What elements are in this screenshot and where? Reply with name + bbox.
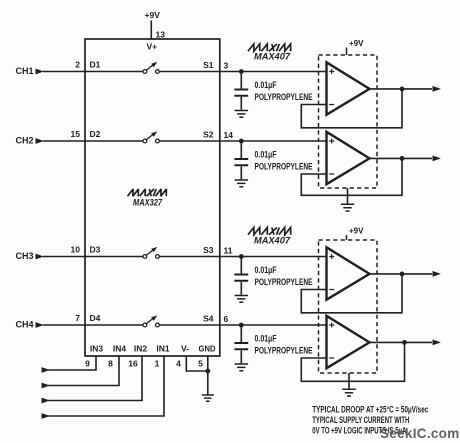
svg-text:S3: S3 bbox=[203, 245, 214, 255]
ground below C1 bbox=[235, 111, 249, 118]
svg-text:4: 4 bbox=[176, 359, 181, 369]
capacitor C4 0.01uF bbox=[234, 325, 248, 363]
svg-text:14: 14 bbox=[224, 130, 234, 140]
svg-text:POLYPROPYLENE: POLYPROPYLENE bbox=[255, 345, 313, 355]
capacitor C3 0.01uF bbox=[234, 257, 248, 295]
wire CH2 input to pin 15 bbox=[43, 140, 85, 142]
svg-text:0.01µF: 0.01µF bbox=[255, 334, 277, 344]
ground below MAX407 #1 bbox=[341, 204, 354, 211]
output arrow row 4 bbox=[433, 340, 442, 346]
wire feedback loop U2 output to inverting input bbox=[301, 89, 402, 128]
analog switch SW3 (D3-S3) bbox=[143, 247, 159, 259]
wire D3 to switch pole bbox=[85, 256, 143, 258]
svg-text:D1: D1 bbox=[90, 60, 101, 70]
svg-text:SeekIC.com: SeekIC.com bbox=[380, 426, 460, 441]
analog switch SW1 (D1-S1) bbox=[143, 62, 159, 74]
input arrow CH2 bbox=[36, 138, 45, 144]
wire switch throw to S2 bbox=[159, 140, 220, 142]
input arrow IN3 bbox=[42, 367, 51, 373]
svg-text:6: 6 bbox=[224, 314, 229, 324]
wire S3 to op-amp U4 noninverting input bbox=[220, 256, 327, 258]
wire IN3 logic input bbox=[49, 356, 97, 370]
svg-text:+9V: +9V bbox=[349, 227, 364, 236]
svg-text:MAX407: MAX407 bbox=[254, 52, 291, 62]
wire CH4 input to pin 7 bbox=[43, 324, 85, 326]
input arrow IN1 bbox=[42, 413, 51, 419]
wire S1 to op-amp U2 noninverting input bbox=[220, 71, 327, 73]
svg-text:CH4: CH4 bbox=[16, 320, 34, 330]
ground below C4 bbox=[235, 364, 249, 371]
op-amp U2 + input mark bbox=[329, 69, 334, 74]
svg-text:16: 16 bbox=[128, 359, 138, 369]
svg-text:CH2: CH2 bbox=[16, 136, 34, 146]
svg-text:V-: V- bbox=[181, 344, 189, 354]
svg-text:+9V: +9V bbox=[349, 39, 364, 48]
wire switch throw to S4 bbox=[159, 324, 220, 326]
wire feedback loop U3 output to inverting input bbox=[301, 158, 402, 195]
op-amp U2 (1/4 MAX407) bbox=[327, 62, 370, 114]
wire ground stub (MAX407 #1) bbox=[347, 188, 349, 204]
svg-text:13: 13 bbox=[156, 30, 166, 40]
wire op-amp U2 output bbox=[370, 88, 433, 90]
wire feedback loop U5 output to inverting input bbox=[301, 342, 404, 381]
junction node at C4 bbox=[239, 323, 244, 328]
svg-text:D2: D2 bbox=[90, 129, 101, 139]
junction node at C1 bbox=[239, 69, 244, 74]
op-amp U3 (1/4 MAX407) bbox=[327, 132, 370, 184]
input arrow IN4 bbox=[42, 383, 51, 389]
analog switch SW4 (D4-S4) bbox=[143, 315, 159, 327]
svg-text:1: 1 bbox=[155, 359, 160, 369]
svg-text:11: 11 bbox=[224, 245, 233, 255]
wire op-amp U4 output bbox=[370, 273, 433, 275]
input arrow CH4 bbox=[36, 322, 45, 328]
capacitor C2 0.01uF bbox=[234, 141, 248, 179]
svg-text:2: 2 bbox=[75, 60, 80, 70]
svg-text:IN1: IN1 bbox=[156, 344, 170, 354]
svg-text:POLYPROPYLENE: POLYPROPYLENE bbox=[255, 161, 313, 171]
svg-text:+9V: +9V bbox=[145, 10, 161, 20]
input arrow CH3 bbox=[36, 254, 45, 260]
svg-text:CH3: CH3 bbox=[16, 251, 34, 261]
wire +9V stub (MAX407 #1) bbox=[346, 48, 348, 56]
op-amp U4 (1/4 MAX407) bbox=[327, 247, 370, 299]
svg-text:D3: D3 bbox=[90, 245, 101, 255]
wire CH3 input to pin 10 bbox=[43, 256, 85, 258]
svg-text:S1: S1 bbox=[203, 60, 214, 70]
svg-text:0.01µF: 0.01µF bbox=[255, 265, 277, 275]
svg-text:MAX407: MAX407 bbox=[254, 236, 291, 246]
svg-text:IN2: IN2 bbox=[134, 344, 148, 354]
wire op-amp U5 output bbox=[370, 341, 433, 343]
op-amp U3 - input mark bbox=[329, 173, 334, 175]
svg-text:7: 7 bbox=[75, 313, 80, 323]
op-amp U5 (1/4 MAX407) bbox=[327, 316, 370, 368]
wire S4 to op-amp U5 noninverting input bbox=[220, 324, 327, 326]
svg-text:V+: V+ bbox=[147, 42, 158, 52]
svg-text:IN4: IN4 bbox=[113, 344, 127, 354]
output arrow row 3 bbox=[433, 271, 442, 277]
ground symbol (V-/GND) bbox=[202, 395, 214, 401]
junction node V-/GND bbox=[205, 369, 210, 374]
wire switch throw to S1 bbox=[159, 71, 220, 73]
MAXIM logo (MAX407 #2) bbox=[248, 228, 291, 235]
svg-text:IN3: IN3 bbox=[90, 344, 104, 354]
wire V- to GND net bbox=[186, 356, 208, 371]
svg-text:9: 9 bbox=[85, 359, 90, 369]
svg-text:0.01µF: 0.01µF bbox=[255, 80, 277, 90]
wire +9V to V+ pin 13 bbox=[150, 21, 152, 40]
svg-text:D4: D4 bbox=[90, 313, 101, 323]
input arrow CH1 bbox=[36, 69, 45, 75]
ground below MAX407 #2 bbox=[342, 389, 356, 396]
input arrow IN2 bbox=[42, 398, 51, 404]
op-amp U3 + input mark bbox=[329, 139, 334, 144]
op-amp U5 - input mark bbox=[329, 357, 334, 359]
MAXIM logo (MAX407 #1) bbox=[248, 44, 291, 51]
MAXIM logo (MAX327) bbox=[128, 189, 167, 196]
junction node output U2 bbox=[400, 87, 405, 92]
junction node output U5 bbox=[402, 340, 407, 345]
svg-text:3: 3 bbox=[224, 60, 229, 70]
wire +9V stub (MAX407 #2) bbox=[346, 235, 348, 240]
capacitor C1 0.01uF bbox=[234, 72, 248, 110]
junction node output U3 bbox=[400, 156, 405, 161]
op-amp U4 + input mark bbox=[329, 254, 334, 259]
IC U1 MAX327 package outline bbox=[85, 39, 220, 356]
junction node at C3 bbox=[239, 254, 244, 259]
wire op-amp U3 output bbox=[370, 157, 433, 159]
wire D2 to switch pole bbox=[85, 140, 143, 142]
wire switch throw to S3 bbox=[159, 256, 220, 258]
wire IN1 logic input bbox=[49, 356, 165, 416]
svg-text:5: 5 bbox=[198, 359, 203, 369]
svg-text:S4: S4 bbox=[203, 314, 214, 324]
wire S2 to op-amp U3 noninverting input bbox=[220, 140, 327, 142]
op-amp U4 - input mark bbox=[329, 289, 334, 291]
wire D4 to switch pole bbox=[85, 324, 143, 326]
wire CH1 input to pin 2 bbox=[43, 71, 85, 73]
wire GND pin to ground bbox=[207, 356, 209, 395]
svg-text:TYPICAL DROOP AT +25°C = 50µV/: TYPICAL DROOP AT +25°C = 50µV/sec bbox=[312, 405, 428, 415]
svg-text:S2: S2 bbox=[203, 130, 214, 140]
svg-text:15: 15 bbox=[71, 129, 81, 139]
op-amp U2 - input mark bbox=[329, 104, 334, 106]
ground below C3 bbox=[235, 296, 249, 303]
svg-text:8: 8 bbox=[108, 359, 113, 369]
junction node at C2 bbox=[239, 139, 244, 144]
svg-text:MAX327: MAX327 bbox=[133, 198, 163, 208]
output arrow row 1 bbox=[433, 86, 442, 92]
svg-text:POLYPROPYLENE: POLYPROPYLENE bbox=[255, 277, 313, 287]
wire ground stub (MAX407 #2) bbox=[348, 373, 350, 389]
dashed package outline MAX407 #1 bbox=[319, 55, 378, 188]
svg-text:TYPICAL SUPPLY CURRENT WITH: TYPICAL SUPPLY CURRENT WITH bbox=[312, 415, 409, 425]
wire D1 to switch pole bbox=[85, 71, 143, 73]
dashed package outline MAX407 #2 bbox=[319, 240, 378, 373]
svg-text:0.01µF: 0.01µF bbox=[255, 150, 277, 160]
wire IN2 logic input bbox=[49, 356, 143, 401]
ground below C2 bbox=[235, 180, 249, 187]
svg-text:GND: GND bbox=[199, 344, 216, 354]
svg-text:CH1: CH1 bbox=[16, 66, 34, 76]
output arrow row 2 bbox=[433, 156, 442, 162]
svg-text:10: 10 bbox=[71, 245, 81, 255]
junction node output U4 bbox=[400, 272, 405, 277]
wire IN4 logic input bbox=[49, 356, 120, 386]
wire feedback loop U4 output to inverting input bbox=[301, 274, 402, 313]
svg-text:POLYPROPYLENE: POLYPROPYLENE bbox=[255, 92, 313, 102]
op-amp U5 + input mark bbox=[329, 323, 334, 328]
analog switch SW2 (D2-S2) bbox=[143, 131, 159, 143]
